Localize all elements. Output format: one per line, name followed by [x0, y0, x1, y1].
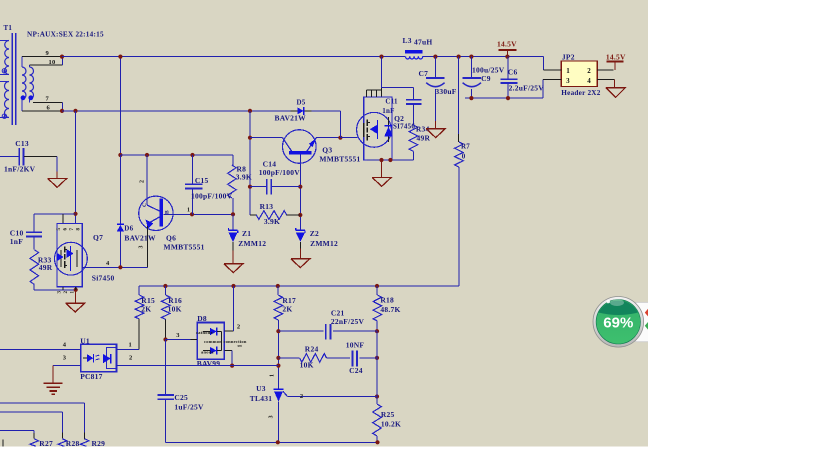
svg-text:10.2K: 10.2K: [381, 419, 401, 428]
svg-text:2: 2: [237, 323, 241, 330]
svg-text:PC817: PC817: [80, 372, 103, 381]
svg-text:48.7K: 48.7K: [380, 305, 400, 314]
svg-text:9: 9: [46, 50, 50, 57]
svg-text:3: 3: [566, 77, 570, 85]
svg-text:1: 1: [566, 67, 570, 75]
svg-text:1: 1: [187, 207, 190, 213]
svg-text:C25: C25: [174, 393, 188, 402]
svg-text:7: 7: [70, 228, 75, 231]
svg-text:2K: 2K: [282, 305, 292, 314]
svg-text:R16: R16: [168, 296, 182, 305]
svg-text:D5: D5: [297, 98, 306, 106]
svg-text:4: 4: [587, 77, 591, 85]
svg-text:2: 2: [587, 67, 591, 75]
svg-text:cathode: cathode: [196, 330, 213, 335]
svg-text:2.2uF/25V: 2.2uF/25V: [509, 84, 545, 93]
svg-text:1: 1: [270, 374, 276, 377]
svg-text:L3: L3: [403, 36, 412, 45]
svg-text:MMBT5551: MMBT5551: [164, 242, 205, 251]
svg-text:Z2: Z2: [310, 229, 319, 238]
svg-text:3: 3: [58, 291, 63, 294]
svg-text:BAV21W: BAV21W: [275, 113, 307, 122]
svg-text:100pF/100V: 100pF/100V: [191, 192, 233, 201]
svg-text:anode: anode: [201, 350, 214, 355]
svg-text:1uF/25V: 1uF/25V: [174, 403, 204, 412]
svg-text:3: 3: [63, 355, 67, 362]
svg-text:10K: 10K: [168, 305, 182, 314]
svg-text:C9: C9: [481, 74, 491, 83]
svg-text:1: 1: [238, 344, 244, 347]
svg-text:U1: U1: [80, 336, 90, 345]
svg-text:3.9K: 3.9K: [264, 217, 280, 226]
svg-text:6: 6: [47, 105, 51, 112]
svg-text:7: 7: [46, 96, 50, 103]
svg-text:22nF/25V: 22nF/25V: [331, 317, 365, 326]
svg-text:3.9K: 3.9K: [236, 173, 252, 182]
svg-text:1: 1: [129, 341, 133, 348]
svg-text:8: 8: [77, 228, 82, 231]
svg-text:2: 2: [64, 291, 69, 294]
svg-text:BAV99: BAV99: [197, 359, 221, 368]
svg-text:NP:AUX:SEX 22:14:15: NP:AUX:SEX 22:14:15: [27, 31, 104, 39]
svg-text:2: 2: [129, 355, 133, 362]
svg-text:D8: D8: [197, 314, 207, 323]
svg-text:BAV21W: BAV21W: [124, 234, 156, 243]
svg-text:Header 2X2: Header 2X2: [561, 89, 600, 97]
svg-text:14.5V: 14.5V: [606, 52, 626, 61]
svg-text:330uF: 330uF: [435, 87, 456, 96]
svg-text:1nF/2KV: 1nF/2KV: [4, 164, 36, 173]
svg-text:C14: C14: [263, 159, 277, 168]
svg-text:R17: R17: [282, 296, 296, 305]
svg-text:2K: 2K: [141, 305, 151, 314]
svg-text:49R: 49R: [417, 133, 431, 142]
svg-text:4: 4: [63, 341, 67, 348]
svg-text:R15: R15: [141, 296, 155, 305]
svg-text:C15: C15: [195, 176, 209, 185]
svg-text:R24: R24: [305, 345, 319, 354]
svg-text:1: 1: [71, 291, 76, 294]
svg-text:2: 2: [300, 393, 304, 400]
svg-text:6: 6: [64, 228, 69, 231]
svg-text:69%: 69%: [603, 315, 633, 332]
svg-text:Q7: Q7: [93, 233, 103, 242]
svg-text:47uH: 47uH: [414, 38, 433, 47]
svg-text:SI7456: SI7456: [393, 123, 415, 131]
svg-text:2: 2: [140, 180, 146, 183]
svg-text:TL431: TL431: [250, 394, 273, 403]
svg-text:T1: T1: [4, 24, 13, 32]
svg-text:Q6: Q6: [166, 234, 176, 243]
svg-text:R18: R18: [380, 296, 394, 305]
svg-text:JP2: JP2: [562, 52, 575, 61]
svg-text:common connection: common connection: [204, 339, 247, 344]
svg-text:B: B: [165, 210, 171, 214]
svg-text:0: 0: [462, 153, 466, 161]
svg-text:4: 4: [106, 260, 110, 267]
svg-text:1nF: 1nF: [10, 237, 23, 246]
svg-text:5: 5: [57, 228, 62, 231]
svg-text:3: 3: [268, 415, 274, 418]
svg-text:ZMM12: ZMM12: [310, 239, 338, 248]
svg-text:C6: C6: [508, 67, 518, 76]
svg-text:100u/25V: 100u/25V: [472, 65, 505, 74]
svg-text:14.5V: 14.5V: [497, 39, 517, 48]
svg-text:3: 3: [139, 245, 145, 248]
svg-text:10NF: 10NF: [346, 341, 365, 350]
svg-text:C13: C13: [15, 139, 29, 148]
svg-text:1nF: 1nF: [382, 107, 394, 115]
svg-text:D6: D6: [124, 225, 133, 233]
svg-text:3: 3: [176, 332, 180, 339]
svg-text:R25: R25: [381, 410, 395, 419]
svg-text:ZMM12: ZMM12: [238, 239, 266, 248]
svg-text:Si7450: Si7450: [92, 274, 115, 283]
svg-text:R7: R7: [461, 143, 470, 151]
svg-text:49R: 49R: [39, 263, 53, 272]
svg-text:U3: U3: [256, 384, 266, 393]
svg-text:Q3: Q3: [322, 146, 332, 155]
svg-text:Z1: Z1: [242, 229, 251, 238]
svg-text:10K: 10K: [300, 361, 314, 370]
svg-text:MMBT5551: MMBT5551: [319, 154, 360, 163]
svg-text:100pF/100V: 100pF/100V: [259, 168, 301, 177]
svg-text:R13: R13: [260, 202, 274, 211]
svg-text:C7: C7: [419, 69, 429, 78]
svg-text:C: C: [142, 203, 148, 207]
svg-text:10: 10: [49, 59, 56, 66]
svg-text:C24: C24: [349, 366, 363, 375]
